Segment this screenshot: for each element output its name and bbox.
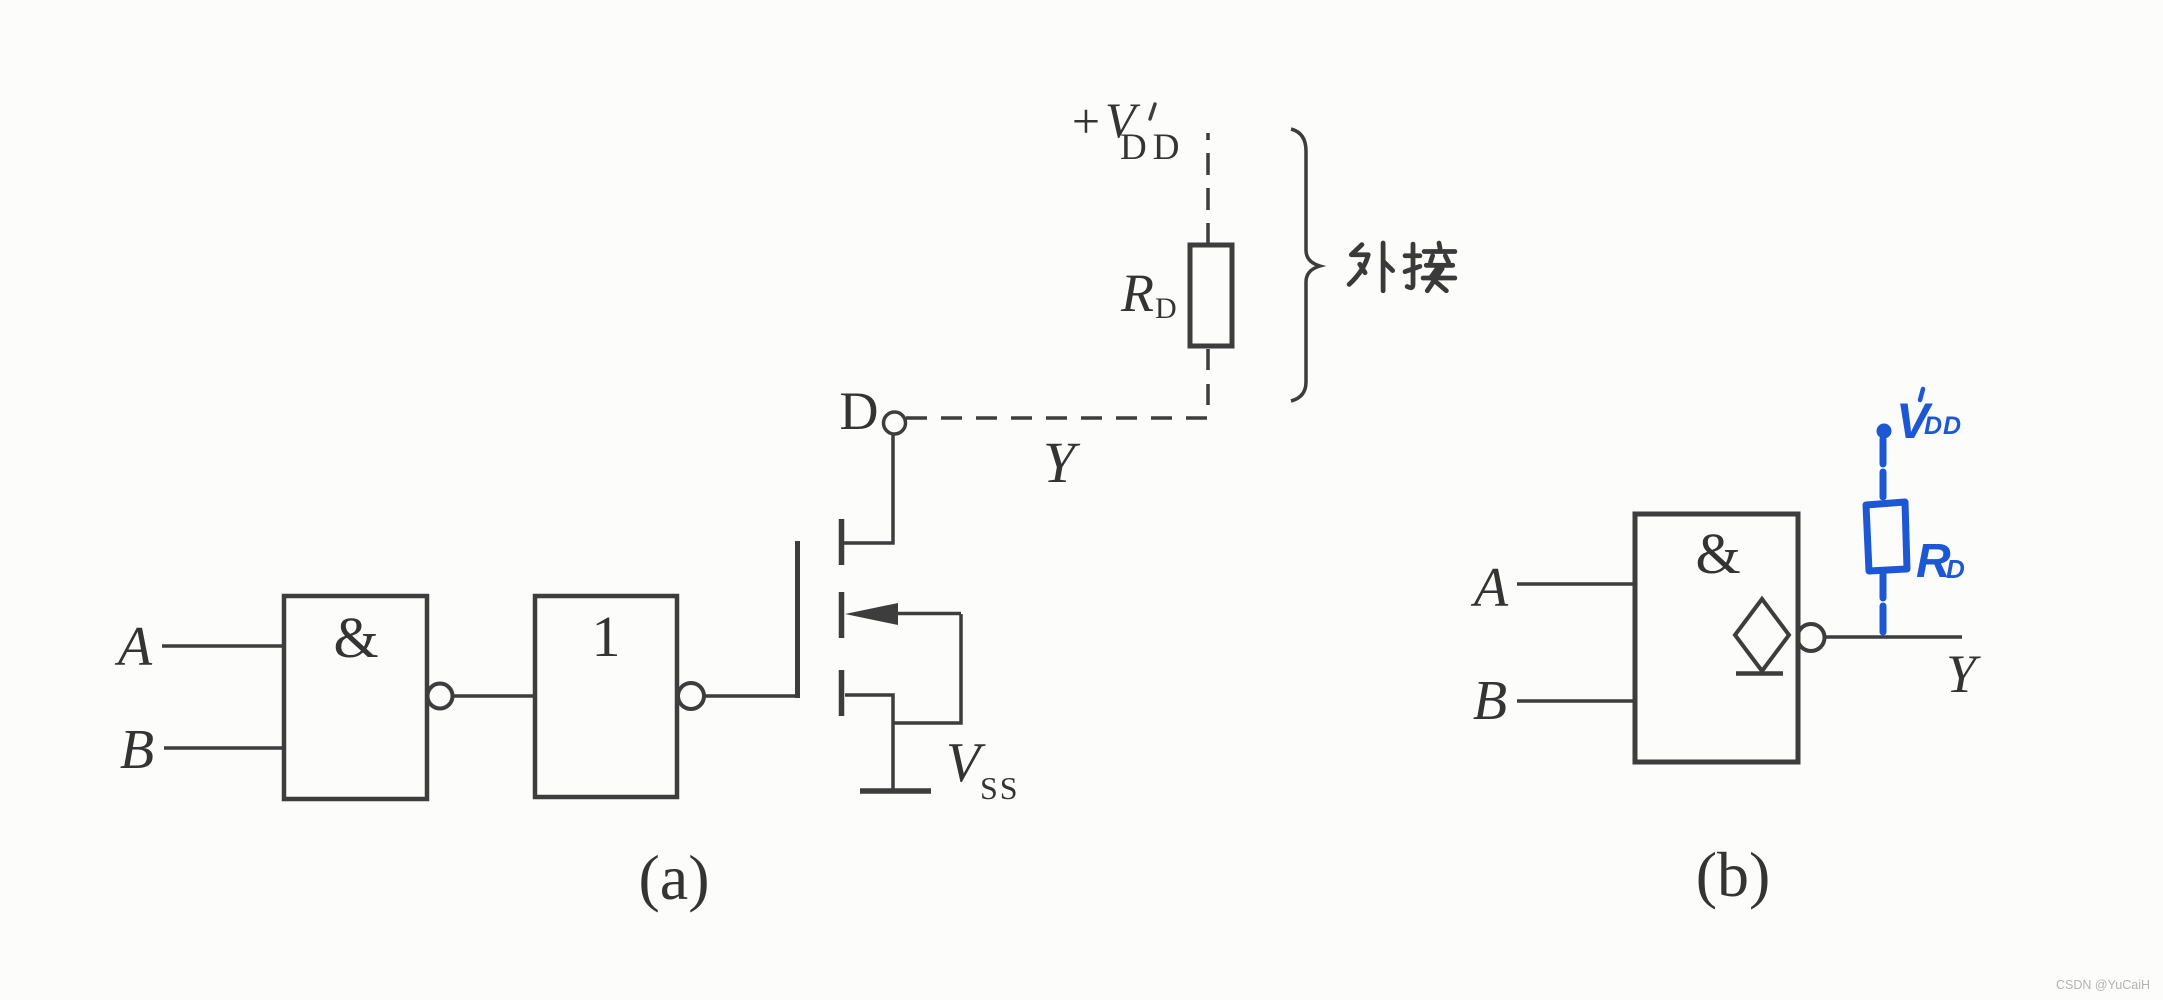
svg-text:DD: DD: [1120, 127, 1185, 168]
svg-text:Y: Y: [1043, 430, 1081, 495]
svg-text:1: 1: [592, 604, 621, 669]
svg-text:R: R: [1120, 263, 1154, 323]
svg-text:Y: Y: [1946, 644, 1981, 704]
svg-text:SS: SS: [980, 770, 1020, 806]
svg-text:&: &: [333, 605, 378, 670]
svg-text:DD: DD: [1924, 412, 1962, 440]
svg-text:&: &: [1695, 521, 1740, 586]
svg-text:D: D: [840, 381, 879, 441]
svg-text:+: +: [1072, 93, 1100, 149]
svg-text:D: D: [1946, 554, 1965, 584]
svg-text:D: D: [1155, 292, 1177, 325]
svg-text:A: A: [114, 616, 153, 678]
svg-text:CSDN @YuCaiH: CSDN @YuCaiH: [2056, 978, 2150, 992]
svg-text:(b): (b): [1696, 839, 1771, 910]
svg-text:B: B: [120, 719, 154, 781]
svg-text:(a): (a): [638, 842, 709, 913]
svg-text:A: A: [1470, 557, 1509, 619]
svg-text:B: B: [1473, 670, 1507, 732]
